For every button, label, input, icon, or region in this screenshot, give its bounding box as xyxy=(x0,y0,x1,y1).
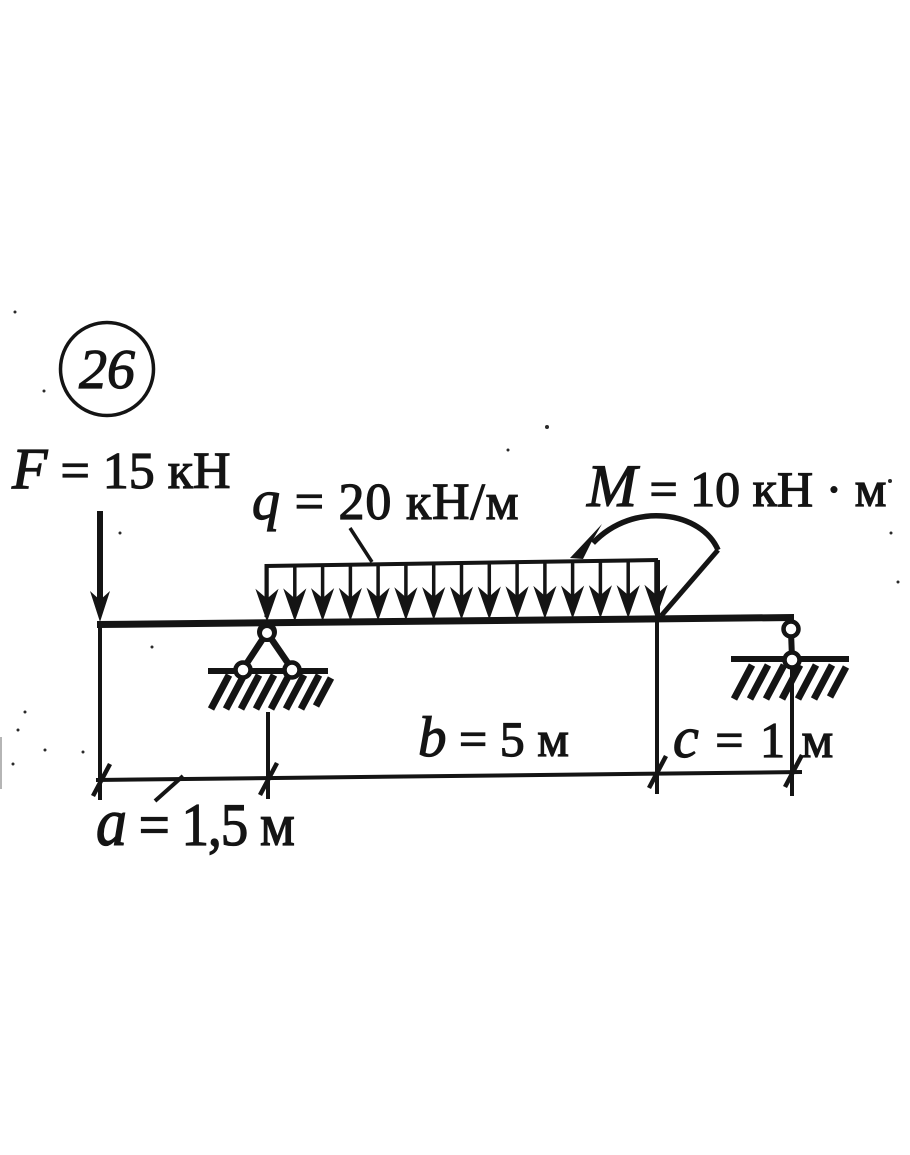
svg-text:F = 15 кН: F = 15 кН xyxy=(11,436,231,501)
moment diagonal line xyxy=(661,550,718,616)
load arrow 4 xyxy=(349,565,353,600)
load arrow 6 xyxy=(404,564,408,599)
distributed load top line xyxy=(265,560,658,566)
pinned support left leg xyxy=(243,634,266,669)
load arrow 8 xyxy=(460,563,464,598)
extension line at x=100 xyxy=(98,626,102,800)
figure number circle 26 xyxy=(61,323,154,416)
leader line from q label xyxy=(350,528,372,562)
extension line at x=792 xyxy=(790,667,794,796)
load arrow 1 xyxy=(265,566,269,600)
svg-text:q = 20 кН/м: q = 20 кН/м xyxy=(252,470,519,532)
dimension tick at x=657 xyxy=(649,756,666,788)
dimension tick at x=100 xyxy=(93,764,110,796)
beam xyxy=(97,614,794,628)
load arrow 9 xyxy=(488,563,492,599)
pinned support ground line xyxy=(208,668,328,674)
distributed load arrows xyxy=(257,560,667,620)
moment arrowhead xyxy=(570,524,602,559)
svg-text:M = 10 кН · м: M = 10 кН · м xyxy=(586,453,886,519)
pinned support hatching xyxy=(211,675,331,709)
distributed load left border xyxy=(265,564,268,617)
leader slash for label a xyxy=(155,776,183,801)
svg-text:c = 1 м: c = 1 м xyxy=(673,705,835,770)
svg-text:b = 5 м: b = 5 м xyxy=(418,706,569,769)
dimension tick at x=268 xyxy=(260,763,277,795)
load arrow 5 xyxy=(376,564,380,599)
pinned support pin blob xyxy=(257,622,277,642)
force F arrowhead xyxy=(90,591,110,622)
svg-text:26: 26 xyxy=(79,339,135,401)
load arrow 15 xyxy=(654,560,658,596)
roller support ground line xyxy=(731,656,849,662)
load arrow 2 xyxy=(293,566,297,601)
roller support bottom circle xyxy=(785,653,800,668)
load arrow 13 xyxy=(599,561,603,597)
load arrow 11 xyxy=(543,562,547,598)
scan noise specks xyxy=(12,311,900,766)
extension line at x=657 xyxy=(655,618,659,794)
distributed load right border xyxy=(656,560,660,616)
load arrow 10 xyxy=(515,562,519,598)
load arrow 3 xyxy=(321,565,325,600)
moment arc xyxy=(593,516,718,550)
pinned support right leg xyxy=(268,634,292,669)
dimension tick at x=793 xyxy=(785,755,802,787)
force F arrow shaft xyxy=(97,511,103,600)
load arrow 7 xyxy=(432,563,436,598)
roller support stem xyxy=(791,632,792,658)
extension line at x=268 xyxy=(266,712,270,799)
load arrow 14 xyxy=(626,561,630,597)
pinned support left base circle xyxy=(236,663,251,678)
roller support hatching xyxy=(734,665,846,699)
svg-text:a = 1,5 м: a = 1,5 м xyxy=(96,785,294,860)
load arrow 12 xyxy=(571,561,575,597)
pinned support right base circle xyxy=(285,663,300,678)
dimension line xyxy=(96,772,802,780)
pinned support pin circle xyxy=(260,626,274,640)
scan edge artifact left margin xyxy=(0,737,2,789)
roller support top circle xyxy=(784,622,799,637)
